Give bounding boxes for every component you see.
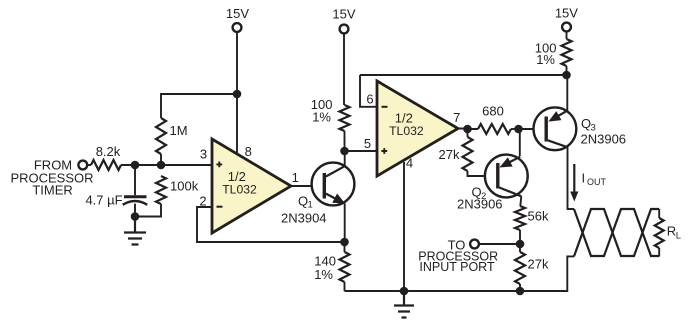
svg-text:4.7 µF: 4.7 µF xyxy=(85,193,122,208)
svg-text:1: 1 xyxy=(292,170,299,185)
load coil (crossed element) lower winding xyxy=(574,209,659,256)
op-amp U1a 1/2 TL032 xyxy=(212,139,291,233)
svg-text:3: 3 xyxy=(200,146,207,161)
wire U1b pin 6 to feedback rail xyxy=(360,75,377,107)
op-amp U1b 1/2 TL032 xyxy=(377,81,458,176)
power terminal V1 15V (left) xyxy=(226,6,249,32)
svg-text:L: L xyxy=(676,230,681,241)
resistor R1 8.2k xyxy=(91,144,121,170)
svg-text:100k: 100k xyxy=(170,179,199,194)
wire 56k to node J xyxy=(519,230,521,244)
svg-text:INPUT PORT: INPUT PORT xyxy=(419,260,495,274)
svg-text:1: 1 xyxy=(308,199,313,210)
resistor R4 100 1% xyxy=(311,97,350,131)
node G junction: pin-4 ground xyxy=(400,287,409,296)
power terminal V2 15V (middle) xyxy=(332,6,355,33)
transistor Q2 2N3906 xyxy=(457,155,528,212)
wire 1M top lead to node A xyxy=(161,94,237,118)
wire node E to U1b pin 5 xyxy=(345,150,378,152)
input terminal FROM PROCESSOR TIMER xyxy=(10,157,93,197)
wire Q1 collector up to node E xyxy=(344,151,346,166)
resistor R7 27k xyxy=(439,129,473,171)
svg-text:7: 7 xyxy=(453,110,460,125)
node K junction on ground rail xyxy=(516,287,525,296)
resistor R3 100k xyxy=(156,176,199,204)
svg-text:TIMER: TIMER xyxy=(32,182,72,197)
wire R4 bottom to node E xyxy=(344,131,346,151)
svg-text:15V: 15V xyxy=(332,6,355,21)
resistor R5 140 1% xyxy=(314,252,349,282)
resistor R10 100 1% xyxy=(535,39,572,67)
ground GND1 xyxy=(124,218,146,245)
wire 27k to Q2 base xyxy=(468,171,499,176)
svg-text:27k: 27k xyxy=(439,147,460,162)
node E junction: R4 / Q1 collector / U1b pin 5 xyxy=(340,147,349,156)
wire R5 bottom to ground rail xyxy=(344,242,346,291)
wire U1a output pin 1 to Q1 base xyxy=(291,185,323,187)
svg-text:TL032: TL032 xyxy=(389,124,424,138)
node B junction at capacitor xyxy=(131,161,140,170)
svg-text:1%: 1% xyxy=(312,110,331,125)
resistor R6 680 xyxy=(478,104,511,134)
svg-text:8.2k: 8.2k xyxy=(96,144,121,159)
wire 1M bottom to input node B xyxy=(160,154,162,165)
wire R1 to op-amp U1a pin 3 (input node) xyxy=(121,164,212,166)
wire node I to Q3 base xyxy=(519,128,546,130)
node C junction at 100k xyxy=(157,161,166,170)
wire U1b pin 4 down to ground rail xyxy=(403,162,405,291)
wire Q2 emitter up to node I xyxy=(519,129,521,156)
svg-text:I: I xyxy=(582,170,586,185)
svg-text:1%: 1% xyxy=(314,267,333,282)
transistor Q1 2N3904 xyxy=(281,163,354,226)
wire node L down to Q3 emitter xyxy=(566,75,568,111)
svg-text:680: 680 xyxy=(482,104,504,119)
svg-text:5: 5 xyxy=(364,136,371,151)
ground GND2 xyxy=(394,291,414,318)
wire 100k bottom to node D xyxy=(135,204,161,217)
wire 27k lower to ground rail xyxy=(519,284,521,291)
power terminal V3 15V (right) xyxy=(555,6,578,32)
node A junction: 1M feedback taps pin-8 rail xyxy=(233,90,242,99)
load coil (crossed element) upper winding xyxy=(574,209,659,256)
transistor Q3 2N3906 xyxy=(534,107,627,150)
wire U1a pin 2 feedback to Q1 emitter node xyxy=(197,207,345,242)
wire TO terminal to node J xyxy=(479,243,520,245)
svg-text:8: 8 xyxy=(245,144,252,159)
wire 15V V1 down to op-amp U1a pin 8 xyxy=(236,32,238,154)
node J junction: TO-port tap xyxy=(516,240,525,249)
resistor R8 56k xyxy=(515,206,549,230)
node H junction pin 7 xyxy=(463,125,472,134)
annotation arrow I_OUT xyxy=(570,164,606,202)
resistor R2 1M xyxy=(156,118,188,154)
svg-text:2N3904: 2N3904 xyxy=(281,210,327,225)
svg-text:6: 6 xyxy=(366,92,373,107)
node D junction capacitor bottom xyxy=(131,212,140,221)
wire U1b output to pin-7 node xyxy=(458,128,478,131)
svg-text:15V: 15V xyxy=(226,6,249,21)
wire input terminal to R1 xyxy=(87,164,91,166)
svg-text:56k: 56k xyxy=(528,208,549,223)
svg-text:1M: 1M xyxy=(170,123,188,138)
svg-text:15V: 15V xyxy=(555,6,578,21)
svg-text:2N3906: 2N3906 xyxy=(457,196,503,211)
resistor RL load xyxy=(655,209,681,256)
terminal TO PROCESSOR INPUT PORT xyxy=(418,237,498,274)
wire Q3 collector down to load coil xyxy=(568,147,575,209)
svg-text:2N3906: 2N3906 xyxy=(581,131,627,146)
svg-text:TL032: TL032 xyxy=(222,182,257,196)
wire 15V V2 to R4 xyxy=(343,33,345,105)
svg-text:1%: 1% xyxy=(536,52,555,67)
ground rail (bottom) xyxy=(345,256,575,291)
svg-text:27k: 27k xyxy=(528,257,549,272)
node L junction: feedback / Q3 emitter xyxy=(562,71,571,80)
wire 680 to node I xyxy=(511,128,519,130)
node F junction: feedback / Q1 emitter / R5 xyxy=(340,238,349,247)
wire Q1 emitter down to node F xyxy=(344,204,346,243)
svg-text:1/2: 1/2 xyxy=(395,110,413,125)
svg-text:4: 4 xyxy=(406,156,413,171)
wire 15V V3 to R10 xyxy=(566,31,568,39)
wire Q2 collector down to 56k xyxy=(520,196,521,206)
capacitor C1 4.7 uF xyxy=(85,165,147,217)
svg-text:OUT: OUT xyxy=(587,177,607,187)
node I junction: 680 / Q3 base / Q2 emitter xyxy=(514,125,523,134)
wire R10 to node L xyxy=(566,66,568,75)
resistor R9 27k (lower) xyxy=(515,244,549,284)
wire feedback rail to Q3 emitter node xyxy=(360,74,567,76)
